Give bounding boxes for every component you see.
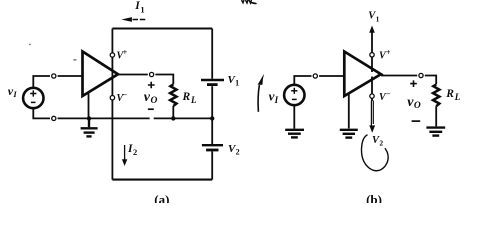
wire source top stub (b) xyxy=(294,76,311,85)
terminal circle V+ (a) xyxy=(110,53,114,57)
wire battery V2 bottom xyxy=(211,151,213,179)
ground source (b) xyxy=(285,130,304,138)
wire inverting stub to ground (b) xyxy=(348,94,350,129)
wire top rail xyxy=(112,28,212,30)
wire mid rail to battery V2 xyxy=(211,118,213,144)
source vI circle xyxy=(23,88,43,108)
svg-text:−: − xyxy=(386,90,391,99)
svg-text:(a): (a) xyxy=(154,192,169,203)
node battery mid junction xyxy=(210,116,214,120)
battery V2 short plate xyxy=(206,149,218,152)
wire arrow shaft V2 (b) xyxy=(371,101,373,128)
source vI minus sign xyxy=(31,101,36,103)
label minus of vO (b) xyxy=(412,120,421,122)
annotation loop around V2 (b) xyxy=(361,135,388,171)
svg-text:V1: V1 xyxy=(368,11,379,24)
label plus of vO (b) xyxy=(410,80,417,87)
ground RL (b) xyxy=(426,128,445,136)
power line V- (b) xyxy=(371,77,373,102)
terminal circle output (b) xyxy=(419,73,423,77)
resistor RL (a) xyxy=(170,84,176,106)
svg-text:−: − xyxy=(123,91,128,100)
op-amp triangle (a) xyxy=(83,52,119,97)
wire RL to ground (b) xyxy=(435,106,437,126)
arrow V1 up (b) xyxy=(369,26,375,33)
source vI plus (b) xyxy=(291,88,297,94)
wire input to op-amp (b) xyxy=(319,75,344,77)
current arrow I2 (down) xyxy=(122,145,127,166)
wire bottom return loop xyxy=(112,179,212,181)
stray dash left of op-amp xyxy=(73,59,76,61)
wire bottom rail right xyxy=(154,117,213,119)
stray smudge mark top xyxy=(242,0,252,3)
battery V2 long plate xyxy=(202,144,223,146)
source vI minus (b) xyxy=(292,98,297,100)
output wire from op-amp xyxy=(118,74,148,76)
arrow V2 down (b) xyxy=(369,125,375,132)
svg-text:RL: RL xyxy=(445,88,460,102)
ground op-amp (b) xyxy=(340,130,358,138)
terminal circle V- (b) xyxy=(370,94,374,98)
source vI plus sign xyxy=(30,90,36,96)
wire battery V1 to mid rail xyxy=(211,86,213,118)
svg-text:vI: vI xyxy=(269,89,279,105)
node ground junction xyxy=(87,116,91,120)
svg-text:I1: I1 xyxy=(134,0,144,14)
wire output corner to RL (b) xyxy=(425,76,436,85)
terminal circle input bottom xyxy=(52,116,56,120)
terminal circle V- (a) xyxy=(110,96,114,100)
svg-text:vO: vO xyxy=(144,90,158,106)
terminal circle output xyxy=(150,72,154,76)
svg-text:RL: RL xyxy=(182,91,197,105)
wire source top stub xyxy=(33,76,50,88)
svg-text:V2: V2 xyxy=(372,135,383,148)
source vI circle (b) xyxy=(284,85,304,105)
svg-text:vO: vO xyxy=(407,95,421,111)
wire RL bottom lead xyxy=(172,106,174,118)
svg-text:vI: vI xyxy=(8,84,18,99)
svg-text:+: + xyxy=(386,48,391,57)
power line vertical (a) xyxy=(111,29,113,180)
annotation arrow near vI (b) xyxy=(258,74,265,112)
wire bottom rail left xyxy=(58,117,150,119)
wire input to op-amp xyxy=(58,75,83,77)
battery V1 long plate xyxy=(201,79,224,81)
resistor RL (b) xyxy=(433,84,439,106)
svg-text:(b): (b) xyxy=(366,192,382,203)
op-amp triangle (b) xyxy=(344,52,381,97)
output wire (b) xyxy=(381,75,417,77)
wire inverting input stub to ground rail xyxy=(88,93,90,119)
terminal circle V+ (b) xyxy=(370,53,374,57)
power line V+ (b) xyxy=(371,32,373,72)
wire output to RL corner xyxy=(155,75,173,85)
ground (a) xyxy=(81,118,98,136)
svg-text:V2: V2 xyxy=(228,143,240,156)
svg-text:V1: V1 xyxy=(228,74,240,88)
label minus of vO (a) xyxy=(148,108,154,110)
label plus of vO (a) xyxy=(148,82,155,89)
wire source bottom stub (b) xyxy=(293,105,295,128)
wire source bottom stub xyxy=(33,108,50,118)
wire battery column top xyxy=(211,29,213,79)
terminal circle input top xyxy=(52,74,56,78)
current arrow I1 (left) xyxy=(121,17,146,22)
svg-text:I2: I2 xyxy=(127,143,137,157)
svg-text:+: + xyxy=(123,48,128,57)
stray speck left margin xyxy=(29,44,31,46)
terminal circle input (b) xyxy=(313,74,317,78)
node RL bottom junction xyxy=(171,116,175,120)
battery V1 short plate xyxy=(207,83,218,86)
